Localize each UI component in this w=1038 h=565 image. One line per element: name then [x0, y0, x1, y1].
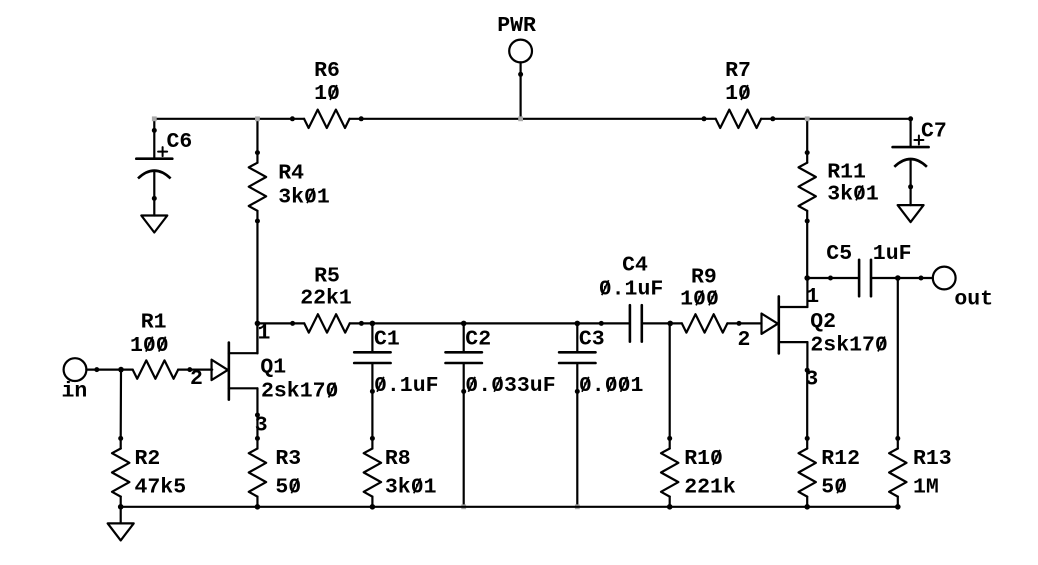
label C7	[921, 120, 947, 144]
wire Q1 drain node down	[256, 323, 258, 353]
junction R10 bottom	[667, 504, 673, 510]
svg-text:R9: R9	[691, 266, 717, 290]
label R7 value 10	[725, 82, 751, 106]
wire R1 to Q1 gate	[190, 369, 212, 371]
transistor Q2	[762, 278, 808, 369]
svg-text:22k1: 22k1	[300, 286, 352, 310]
svg-text:out: out	[954, 288, 993, 312]
junction Q2 source pin	[805, 368, 810, 373]
svg-text:C3: C3	[579, 328, 605, 352]
svg-text:1: 1	[806, 285, 819, 309]
wire bottom ground rail	[121, 506, 898, 508]
wire top rail right segment	[773, 118, 911, 120]
junction R12 bottom	[804, 504, 810, 510]
label C6	[167, 130, 193, 154]
label R11	[827, 160, 866, 184]
label Q1 value 2sk170	[261, 380, 338, 404]
ground below C6	[141, 216, 167, 233]
resistor R4	[249, 150, 266, 223]
junction PWR tap	[518, 116, 523, 121]
label R10	[684, 447, 723, 471]
junction R4 tap on top rail	[255, 116, 260, 121]
transistor Q1	[212, 324, 258, 415]
capacitor C2	[446, 323, 482, 394]
label R10 value 221k	[684, 476, 736, 500]
svg-text:R6: R6	[314, 59, 340, 83]
resistor R1	[119, 360, 193, 378]
capacitor C1	[354, 323, 390, 394]
capacitor C4	[599, 305, 670, 341]
wire C6 to ground	[153, 198, 155, 215]
label Q1 pin 2	[190, 367, 203, 391]
label C2	[465, 328, 491, 352]
wire Q2 source to R12	[806, 370, 808, 438]
svg-text:3k01: 3k01	[278, 185, 330, 209]
junction C3 top	[575, 321, 581, 327]
resistor R11	[799, 150, 816, 223]
label Q2 value 2sk170	[810, 334, 887, 358]
label R9 value 100	[680, 288, 719, 312]
label R4 value 3k01	[278, 185, 330, 209]
wire C2 to bottom rail	[463, 391, 465, 506]
wire out node to R13	[897, 278, 899, 438]
wire in port to R1	[97, 369, 121, 371]
ground below C7	[898, 205, 924, 222]
junction C1 top	[370, 321, 376, 327]
label C1 value 0.1uF	[374, 374, 439, 398]
junction R11 tap on top rail	[805, 116, 810, 121]
output port out	[919, 267, 956, 290]
label Q1 pin 1	[258, 322, 271, 346]
junction node at Q1 drain / R5	[255, 321, 261, 327]
svg-text:Q2: Q2	[810, 310, 836, 334]
label R12 value 50	[821, 476, 847, 500]
svg-text:3k01: 3k01	[385, 476, 437, 500]
label R5	[314, 265, 340, 289]
label R6 value 10	[314, 82, 340, 106]
svg-text:R11: R11	[827, 160, 866, 184]
svg-text:R7: R7	[725, 59, 751, 83]
svg-text:Q1: Q1	[260, 356, 286, 380]
resistor R2	[112, 436, 129, 509]
label C5 value 1uF	[873, 242, 912, 266]
label R13 value 1M	[913, 476, 939, 500]
label R6	[314, 59, 340, 83]
junction Q1 source pin	[255, 413, 260, 418]
label R3	[275, 447, 301, 471]
power port PWR	[509, 40, 532, 77]
label R3 value 50	[275, 476, 301, 500]
svg-text:C7: C7	[921, 120, 947, 144]
svg-text:R13: R13	[913, 447, 952, 471]
wire Q1 source to R3	[256, 415, 258, 438]
resistor R12	[799, 436, 816, 509]
svg-text:2: 2	[190, 367, 203, 391]
junction node at Q2 drain / C5	[804, 275, 810, 281]
junction C2 bottom corner	[461, 504, 466, 509]
label R1	[141, 311, 167, 335]
input port in	[64, 358, 100, 381]
label C4 value 0.1uF	[599, 277, 664, 301]
svg-text:2sk170: 2sk170	[810, 334, 887, 358]
svg-text:R5: R5	[314, 265, 340, 289]
svg-text:2sk170: 2sk170	[261, 380, 338, 404]
label Q2 pin 3	[805, 368, 818, 392]
label C5	[826, 242, 852, 266]
wire top rail left segment	[154, 118, 292, 120]
svg-text:0.033uF: 0.033uF	[465, 374, 555, 398]
capacitor C7	[893, 116, 929, 189]
wire in node to R2	[120, 370, 123, 439]
svg-text:1uF: 1uF	[873, 242, 912, 266]
svg-text:C4: C4	[622, 254, 648, 278]
wire C4 node to R10	[669, 323, 671, 438]
svg-text:C1: C1	[374, 328, 400, 352]
label C2 value 0.033uF	[465, 374, 555, 398]
label PWR	[497, 14, 536, 38]
capacitor C5	[828, 260, 898, 296]
svg-text:PWR: PWR	[497, 14, 536, 38]
svg-text:221k: 221k	[684, 476, 736, 500]
wire C1 to R8	[371, 391, 373, 438]
svg-text:R10: R10	[684, 447, 723, 471]
wire R9 to Q2 gate	[739, 322, 762, 324]
label Q2 pin 2	[738, 328, 751, 352]
label C1	[374, 328, 400, 352]
wire top rail to R11	[806, 119, 808, 153]
svg-text:1M: 1M	[913, 476, 939, 500]
label Q1 pin 3	[255, 414, 268, 438]
svg-text:R3: R3	[275, 447, 301, 471]
resistor R13	[889, 436, 906, 509]
wire R4 to Q1 drain node	[256, 221, 258, 323]
junction R2 bottom	[118, 504, 124, 510]
wire C3 to bottom rail	[576, 391, 578, 506]
svg-text:R8: R8	[385, 447, 411, 471]
wire Q1 drain node to R5	[257, 322, 292, 324]
label C3 value 0.001	[579, 374, 644, 398]
capacitor C6	[136, 128, 172, 201]
junction R13 bottom	[895, 504, 901, 510]
junction R8 bottom	[370, 504, 376, 510]
wire C7 to ground	[909, 187, 911, 206]
label out	[954, 288, 993, 312]
resistor R10	[661, 436, 678, 509]
wire Q2 drain node to C5	[807, 277, 830, 279]
ground below bottom rail	[108, 523, 134, 540]
svg-text:C2: C2	[465, 328, 491, 352]
junction C3 bottom corner	[575, 504, 580, 509]
wire top rail to R4	[256, 119, 258, 153]
resistor R5	[290, 314, 364, 332]
label R9	[691, 266, 717, 290]
label R5 value 22k1	[300, 286, 352, 310]
svg-text:3k01: 3k01	[827, 183, 879, 207]
junction R3 bottom	[255, 504, 261, 510]
svg-text:in: in	[62, 380, 88, 404]
svg-text:2: 2	[738, 328, 751, 352]
junction C4 / R9 / R10 node	[667, 321, 673, 327]
label R8 value 3k01	[385, 476, 437, 500]
wire top rail corner to C6	[153, 119, 155, 131]
resistor R8	[364, 436, 381, 509]
label R4	[278, 162, 304, 186]
wire R5 to C4	[361, 322, 601, 324]
label R7	[725, 59, 751, 83]
wire R11 to Q2 drain node	[806, 221, 808, 278]
label R2 value 47k5	[135, 476, 187, 500]
junction top rail left corner	[152, 116, 157, 121]
wire rail to ground	[120, 507, 122, 524]
resistor R6	[290, 110, 364, 128]
resistor R3	[249, 436, 266, 509]
svg-text:C6: C6	[167, 130, 193, 154]
wire top rail middle segment	[361, 118, 704, 120]
capacitor C3	[559, 323, 595, 394]
label R12	[821, 447, 860, 471]
label R11 value 3k01	[827, 183, 879, 207]
svg-text:1: 1	[258, 322, 271, 346]
svg-text:R1: R1	[141, 311, 167, 335]
label Q2 pin 1	[806, 285, 819, 309]
svg-text:47k5: 47k5	[135, 476, 187, 500]
label C4	[622, 254, 648, 278]
label C3	[579, 328, 605, 352]
svg-text:R4: R4	[278, 162, 304, 186]
wire PWR to top rail	[519, 74, 521, 119]
junction C5 / R13 / out node	[895, 275, 901, 281]
label R8	[385, 447, 411, 471]
label in	[62, 380, 88, 404]
resistor R7	[702, 110, 776, 128]
junction C2 top	[461, 321, 467, 327]
svg-text:R12: R12	[821, 447, 860, 471]
svg-text:R2: R2	[135, 447, 161, 471]
label R1 value 100	[130, 334, 169, 358]
wire C5 node to out port	[898, 277, 921, 279]
label Q1	[260, 356, 286, 380]
label R2	[135, 447, 161, 471]
junction in / R1 / R2 node	[118, 367, 124, 373]
label R13	[913, 447, 952, 471]
svg-text:C5: C5	[826, 242, 852, 266]
label Q2	[810, 310, 836, 334]
resistor R9	[668, 314, 742, 332]
